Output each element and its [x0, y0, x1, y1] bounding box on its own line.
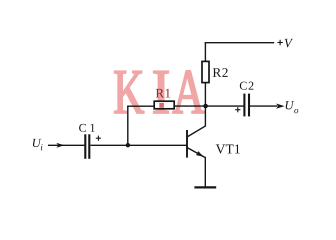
resistor R1: [154, 101, 174, 109]
wire rail to R2 top: [204, 42, 206, 62]
wire top supply rail: [205, 42, 275, 44]
wire emitter vertical: [204, 157, 206, 187]
label R1: [156, 89, 170, 98]
wire R2 bottom to collector node: [204, 83, 206, 107]
label C1: [79, 124, 95, 132]
resistor R2: [202, 61, 209, 82]
node I-stem watermark showthrough over R1: [159, 103, 164, 108]
ground: [194, 186, 216, 188]
output arrowhead: [276, 104, 285, 109]
label C1 plus: [96, 136, 101, 141]
transistor VT1 emitter arrowhead: [196, 151, 204, 157]
wire feedback vertical: [127, 106, 129, 146]
watermark KIA: [115, 71, 205, 113]
input arrowhead: [56, 143, 64, 148]
label C2 plus: [235, 107, 240, 112]
wire output: [250, 105, 278, 107]
wire collector line R1 to C2: [174, 105, 245, 107]
capacitor C2: [244, 94, 249, 117]
label VT1: [216, 144, 240, 153]
wire feedback horizontal: [127, 105, 155, 107]
label R2: [213, 68, 228, 77]
label C2: [240, 82, 254, 90]
node collector junction: [203, 104, 208, 109]
node base junction: [126, 143, 130, 147]
capacitor C1: [85, 134, 89, 159]
label Ui: [33, 139, 43, 150]
transistor VT1 base bar: [186, 130, 188, 158]
label +V: [277, 39, 293, 48]
wire base: [91, 144, 187, 146]
transistor VT1 collector diagonal: [187, 126, 206, 137]
wire collector vertical: [204, 106, 206, 127]
label Uo: [286, 101, 299, 113]
transistor VT1 emitter diagonal: [187, 148, 205, 158]
wire input: [48, 144, 85, 146]
